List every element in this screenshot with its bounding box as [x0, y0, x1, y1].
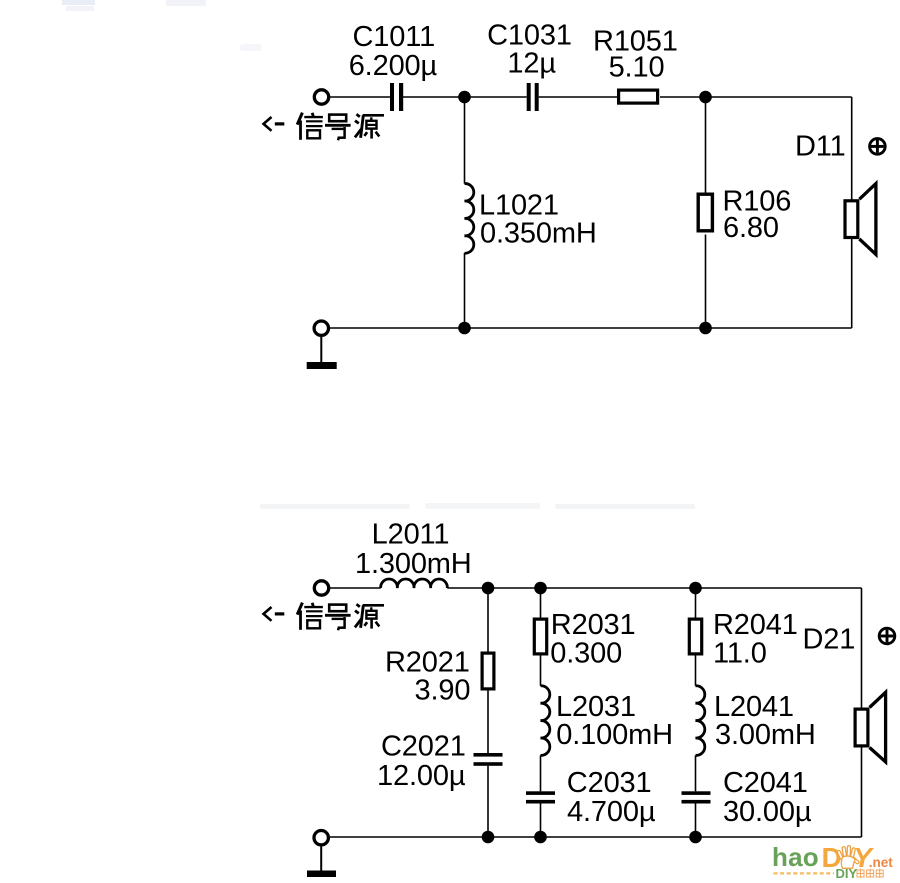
svg-text:D11: D11	[795, 131, 846, 163]
svg-text:4.700µ: 4.700µ	[567, 796, 656, 828]
svg-text:3.90: 3.90	[415, 675, 471, 707]
svg-text:C2021: C2021	[381, 731, 466, 763]
svg-text:hao: hao	[772, 842, 819, 872]
svg-text:DIY: DIY	[836, 866, 858, 881]
svg-text:D21: D21	[803, 624, 856, 656]
svg-text:R2031: R2031	[551, 609, 636, 641]
svg-text:C1031: C1031	[487, 20, 572, 52]
svg-text:L2011: L2011	[372, 519, 450, 551]
svg-text:0.100mH: 0.100mH	[556, 719, 673, 751]
svg-text:0.300: 0.300	[550, 638, 622, 670]
svg-text:0.350mH: 0.350mH	[480, 218, 597, 250]
svg-text:11.0: 11.0	[713, 638, 767, 670]
svg-text:C2041: C2041	[723, 767, 808, 799]
svg-text:C1011: C1011	[353, 21, 436, 53]
svg-text:.net: .net	[869, 855, 894, 870]
svg-text:6.80: 6.80	[723, 212, 779, 244]
svg-text:L2031: L2031	[556, 691, 636, 723]
svg-text:6.200µ: 6.200µ	[349, 50, 438, 82]
svg-text:L2041: L2041	[714, 691, 794, 723]
svg-text:30.00µ: 30.00µ	[723, 796, 812, 828]
svg-text:12.00µ: 12.00µ	[377, 760, 466, 792]
svg-text:5.10: 5.10	[609, 52, 665, 84]
svg-text:3.00mH: 3.00mH	[715, 719, 816, 751]
svg-text:R2041: R2041	[713, 609, 798, 641]
svg-text:12µ: 12µ	[507, 48, 556, 80]
svg-text:C2031: C2031	[567, 767, 652, 799]
svg-text:1.300mH: 1.300mH	[355, 548, 472, 580]
